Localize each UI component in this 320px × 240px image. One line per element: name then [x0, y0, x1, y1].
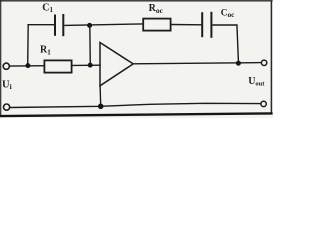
node: top feedback junction dot: [87, 23, 92, 28]
wire: right vertical drop to output wire: [237, 25, 239, 64]
wire: top wire into C1 left plate: [27, 24, 54, 26]
wire: non-inverting drop line to bottom rail: [99, 86, 102, 107]
op-amp U1: [100, 43, 133, 86]
resistor Roc: [143, 19, 170, 31]
terminal: output top circle: [261, 60, 266, 65]
wire: output wire from op-amp to output terminal: [133, 63, 261, 64]
wire: top wire from C1 to Roc: [64, 24, 143, 26]
wire: top wire from Coc to right corner: [212, 24, 237, 26]
svg-text:Coc: Coc: [221, 7, 235, 19]
svg-text:Ui: Ui: [2, 79, 12, 91]
wire: bottom rail: [10, 103, 261, 107]
resistor R1: [44, 60, 71, 72]
node: output junction dot: [236, 61, 241, 66]
wire: C1 branch left vertical from top wire down to input wire: [27, 25, 30, 66]
node: bottom rail junction dot: [98, 104, 104, 110]
node: inverting input junction dot: [88, 63, 93, 68]
terminal: input bottom circle: [4, 104, 10, 110]
terminal: output bottom circle: [261, 101, 266, 106]
wire: feedback vertical from top junction down to input junction: [89, 25, 92, 65]
wire: input wire from terminal to op-amp: [10, 64, 101, 67]
node: junction dot at C1 branch on input wire: [25, 63, 30, 68]
terminal: input top circle: [3, 63, 9, 69]
capacitor Coc: [202, 12, 211, 38]
wire: top wire from Roc to Coc: [171, 24, 202, 26]
capacitor C1: [55, 14, 63, 36]
